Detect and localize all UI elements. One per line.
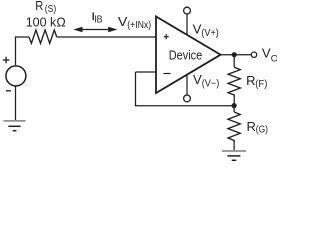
wire: top-left horizontal lead into R(S) <box>15 36 29 38</box>
ground (right) <box>222 151 246 160</box>
wire: junction down to R(G) <box>233 106 235 112</box>
wire: from R(S) to op-amp + input <box>57 36 156 38</box>
wire: R(F) to feedback junction <box>233 97 235 106</box>
wire: source bottom to ground <box>15 86 17 120</box>
svg-text:V: V <box>262 46 271 61</box>
wire: R(G) to ground <box>233 143 235 150</box>
svg-text:(G): (G) <box>256 125 268 136</box>
wire: op-amp bottom edge to V- terminal <box>186 74 188 94</box>
svg-text:R: R <box>246 73 255 88</box>
svg-text:(V−): (V−) <box>202 78 220 89</box>
output terminal circle V_O <box>251 52 256 57</box>
wire: output junction down to R(F) <box>233 55 235 67</box>
voltage source - polarity <box>6 90 11 92</box>
svg-text:IB: IB <box>94 15 103 26</box>
wire: feedback left vertical <box>135 72 137 106</box>
svg-text:O: O <box>271 53 277 64</box>
voltage source + polarity <box>3 57 10 64</box>
voltage source V1 circle <box>6 66 26 86</box>
wire: feedback bottom horizontal to junction <box>135 105 234 107</box>
svg-text:(V+): (V+) <box>201 28 218 39</box>
wire: left vertical from top wire to source <box>15 37 17 65</box>
svg-text:100 kΩ: 100 kΩ <box>26 14 66 29</box>
V- supply terminal circle <box>184 95 191 102</box>
svg-text:(F): (F) <box>255 79 267 90</box>
resistor R(G) zigzag <box>228 112 240 143</box>
wire: op-amp output to V_O terminal <box>221 54 252 56</box>
current arrow I_IB (double-headed) <box>73 27 117 33</box>
op-amp U1 triangle "Device" <box>156 17 221 94</box>
svg-text:R: R <box>247 119 256 134</box>
wire: V+ terminal to op-amp top edge <box>186 14 188 35</box>
svg-text:R: R <box>35 0 43 13</box>
resistor R(S) zigzag <box>29 30 57 43</box>
resistor R(F) zigzag <box>228 67 240 97</box>
V+ supply terminal circle <box>184 7 191 14</box>
op-amp - input marker <box>163 73 170 75</box>
junction node feedback <box>232 103 237 108</box>
op-amp + input marker <box>164 34 169 39</box>
svg-text:(+INx): (+INx) <box>127 20 151 31</box>
junction node at output <box>232 52 237 57</box>
ground (left) <box>3 121 25 131</box>
wire: - input stub <box>136 71 157 73</box>
svg-text:Device: Device <box>169 48 202 63</box>
